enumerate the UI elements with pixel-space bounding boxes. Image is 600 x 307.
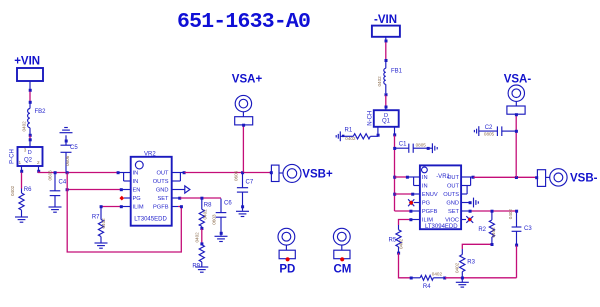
junction ENUV tap xyxy=(393,193,396,196)
svg-text:-VIN: -VIN xyxy=(374,14,397,26)
VR1 pin OUT brackets xyxy=(461,177,473,194)
capacitor C6 xyxy=(211,199,232,236)
svg-text:IN: IN xyxy=(133,171,139,177)
ground right of C1 xyxy=(432,143,437,153)
svg-text:0603: 0603 xyxy=(211,214,216,225)
svg-text:IN: IN xyxy=(133,179,139,185)
svg-text:FB1: FB1 xyxy=(391,68,403,74)
ground at R3 bottom xyxy=(456,278,469,287)
svg-text:R6: R6 xyxy=(24,187,32,193)
svg-text:0606: 0606 xyxy=(47,170,52,181)
VR2 pin EN stub xyxy=(122,189,130,191)
wire ILIM net xyxy=(101,206,121,208)
ferrite bead FB1 xyxy=(377,62,402,94)
junction IN tap xyxy=(393,176,396,179)
VR1 pin PGFB stub xyxy=(411,210,420,212)
wire VSA- drop xyxy=(515,115,517,177)
svg-text:PGFB: PGFB xyxy=(153,205,169,211)
svg-text:OUT: OUT xyxy=(156,171,169,177)
svg-text:VSA-: VSA- xyxy=(504,74,532,86)
VR1 pin ENUV stub xyxy=(412,193,420,195)
resistor R4 xyxy=(412,272,446,291)
svg-text:PD: PD xyxy=(279,264,295,276)
resistor R1 xyxy=(340,128,378,142)
ground below R9 xyxy=(195,267,208,272)
svg-text:2: 2 xyxy=(37,160,40,165)
svg-text:C1: C1 xyxy=(399,142,407,148)
svg-text:R1: R1 xyxy=(345,128,353,134)
svg-text:GND: GND xyxy=(446,201,459,207)
VR2 pin GND flag triangle xyxy=(171,189,185,191)
junction C1 tap xyxy=(393,147,396,150)
ground below R7 xyxy=(95,243,108,248)
wire R8 to R9 xyxy=(200,227,203,230)
connector VSB+ xyxy=(271,164,333,182)
ferrite bead FB2 xyxy=(21,103,46,134)
svg-text:VR2: VR2 xyxy=(144,151,156,157)
wire PGFB- net xyxy=(395,210,411,212)
wire FB2 to Q2 xyxy=(29,134,32,137)
wire Q1 drain vertical input node xyxy=(394,136,396,212)
capacitor C2 xyxy=(479,125,515,137)
connector VSB- xyxy=(537,169,597,187)
svg-text:C2: C2 xyxy=(485,125,493,131)
VR2 pin PG no-connect red dot xyxy=(124,197,130,199)
svg-text:P-CH: P-CH xyxy=(9,149,15,164)
VR2 pin OUT/OUTS bracket xyxy=(171,173,184,182)
svg-text:0805: 0805 xyxy=(484,132,495,137)
wire VSA+ drop xyxy=(242,126,244,173)
svg-text:0606: 0606 xyxy=(233,170,238,181)
svg-text:LT3094EDD: LT3094EDD xyxy=(425,224,458,230)
svg-text:PG: PG xyxy=(133,196,141,202)
VR2 pin SET stub xyxy=(171,197,179,199)
junction C2 tap xyxy=(515,130,518,133)
VR2 pin ILIM stub xyxy=(122,206,130,208)
VR1 pin VIOC no-connect X xyxy=(461,219,466,221)
wire SET- net xyxy=(471,210,517,212)
wire ILIM- net to R5 xyxy=(399,220,411,226)
svg-text:0402: 0402 xyxy=(194,232,199,243)
wire ENUV net xyxy=(395,193,413,195)
svg-text:ENUV: ENUV xyxy=(422,192,438,198)
regulator VR1 LT3094EDD xyxy=(420,165,461,229)
port -VIN xyxy=(372,14,400,43)
svg-text:0402: 0402 xyxy=(21,121,26,132)
svg-text:PG: PG xyxy=(422,201,430,207)
svg-text:FB2: FB2 xyxy=(35,109,47,115)
svg-text:0805: 0805 xyxy=(416,142,427,147)
VR1 pin IN bracket xyxy=(407,177,420,186)
svg-text:IN: IN xyxy=(422,175,428,181)
wire OUT- net xyxy=(474,176,538,178)
svg-text:PGFB: PGFB xyxy=(422,209,438,215)
VR2 pin IN bracket xyxy=(118,173,130,182)
svg-text:VIOC: VIOC xyxy=(445,218,459,224)
ground above C5 xyxy=(60,128,73,133)
svg-text:R2: R2 xyxy=(478,227,486,233)
svg-text:GND: GND xyxy=(156,188,169,194)
transistor Q2 (P-CH MOSFET) xyxy=(9,147,42,173)
svg-text:3: 3 xyxy=(24,147,27,152)
svg-text:OUTS: OUTS xyxy=(153,179,169,185)
connector CM xyxy=(333,228,351,275)
VR1 pin ILIM stub xyxy=(411,219,420,221)
svg-text:C4: C4 xyxy=(59,180,67,186)
svg-text:ILIM: ILIM xyxy=(422,218,433,224)
wire R3 top to R2 bottom xyxy=(462,244,492,249)
transistor Q1 (N-CH MOSFET) xyxy=(367,110,398,137)
wire R4 to R3/C3 bottom net xyxy=(445,277,517,279)
svg-text:0402: 0402 xyxy=(345,136,356,141)
svg-text:R5: R5 xyxy=(389,237,397,243)
svg-text:VSB+: VSB+ xyxy=(302,169,333,181)
wire EN net xyxy=(67,189,121,191)
svg-text:IN: IN xyxy=(422,184,428,190)
svg-text:R8: R8 xyxy=(204,202,212,208)
capacitor C5 xyxy=(61,135,79,171)
svg-text:N-CH: N-CH xyxy=(367,111,373,126)
svg-text:OUTS: OUTS xyxy=(443,192,459,198)
svg-text:C6: C6 xyxy=(224,200,232,206)
wire IN- net xyxy=(395,176,408,178)
wire PGFB feedback loop xyxy=(67,173,181,253)
svg-text:VSA+: VSA+ xyxy=(232,73,263,85)
svg-text:Q2: Q2 xyxy=(24,158,33,164)
wire R5 to bottom net xyxy=(397,252,400,255)
wire Q2 gate to R6 xyxy=(21,173,23,189)
svg-text:0402: 0402 xyxy=(202,209,207,220)
ground below C4 xyxy=(49,207,62,212)
ground left of R1 xyxy=(336,131,340,141)
wire FB1 to Q1 xyxy=(385,93,388,96)
svg-text:0402: 0402 xyxy=(432,272,443,277)
svg-text:LT3045EDD: LT3045EDD xyxy=(134,217,167,223)
svg-text:0606: 0606 xyxy=(65,155,70,166)
VR1 pin SET stub xyxy=(461,210,470,212)
node junction C5 tap xyxy=(66,171,69,174)
connector PD xyxy=(278,228,295,275)
svg-text:0402: 0402 xyxy=(508,209,513,220)
connector VSA- xyxy=(504,74,532,117)
svg-text:0402: 0402 xyxy=(101,218,106,229)
node junction C4 tap xyxy=(54,171,57,174)
svg-text:R4: R4 xyxy=(423,284,431,290)
resistor R5 xyxy=(389,225,404,252)
resistor R8 xyxy=(199,198,212,228)
svg-text:C3: C3 xyxy=(524,226,532,232)
op-amp / regulator VR2 LT3045EDD xyxy=(131,151,172,225)
wire SET net xyxy=(180,197,221,199)
svg-text:R3: R3 xyxy=(467,259,475,265)
connector VSA+ xyxy=(232,73,263,126)
svg-text:R7: R7 xyxy=(92,214,100,220)
svg-text:EN: EN xyxy=(133,188,141,194)
svg-text:ILIM: ILIM xyxy=(133,205,144,211)
svg-text:651-1633-A0: 651-1633-A0 xyxy=(177,10,310,34)
svg-text:0402: 0402 xyxy=(377,76,382,87)
port +VIN xyxy=(14,55,43,91)
capacitor C1 xyxy=(395,142,432,153)
ground below C6 xyxy=(215,236,228,241)
VR1 pin PG no-connect X xyxy=(414,202,420,204)
wire Q2 source to input node xyxy=(39,172,118,173)
svg-text:0402: 0402 xyxy=(455,262,460,273)
svg-text:0402: 0402 xyxy=(10,185,15,196)
svg-text:0402: 0402 xyxy=(398,238,403,249)
wire -VIN to FB1 xyxy=(385,42,387,59)
resistor R6 xyxy=(10,185,32,216)
svg-text:SET: SET xyxy=(157,196,169,202)
wire OUT+ net xyxy=(185,172,272,174)
resistor R9 xyxy=(192,232,204,270)
svg-text:0402: 0402 xyxy=(491,227,496,238)
resistor R2 xyxy=(478,211,495,246)
VR1 pin GND stub + ground xyxy=(461,202,470,204)
VR2 pin PGFB stub xyxy=(171,206,178,208)
ground below C7 xyxy=(236,211,249,216)
capacitor C4 xyxy=(47,170,67,207)
resistor R7 xyxy=(92,208,106,243)
svg-text:OUT: OUT xyxy=(447,184,460,190)
svg-text:+VIN: +VIN xyxy=(14,55,40,67)
svg-text:C5: C5 xyxy=(70,145,78,151)
svg-text:OUT: OUT xyxy=(447,175,460,181)
wire +VIN to FB2 xyxy=(29,92,31,102)
ground below R6 xyxy=(15,217,28,222)
svg-text:VSB-: VSB- xyxy=(570,173,598,185)
ground left of C2 xyxy=(474,126,478,136)
svg-text:SET: SET xyxy=(448,209,460,215)
svg-text:Q1: Q1 xyxy=(382,119,391,125)
svg-text:C7: C7 xyxy=(246,179,254,185)
resistor R3 xyxy=(455,249,476,278)
svg-text:D: D xyxy=(28,150,32,156)
capacitor C3 xyxy=(508,209,532,247)
wire C3 bottom to bottom net xyxy=(516,246,518,278)
svg-text:CM: CM xyxy=(334,264,352,276)
capacitor C7 xyxy=(233,170,253,210)
svg-text:1: 1 xyxy=(19,160,22,165)
